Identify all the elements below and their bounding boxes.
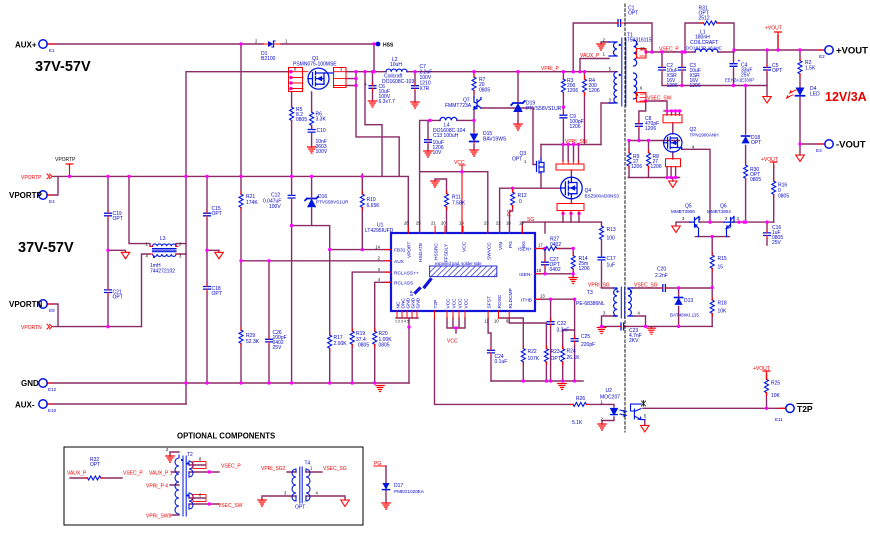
svg-text:FB31: FB31 xyxy=(394,248,406,254)
wire R17 column xyxy=(329,250,331,383)
ground D15 xyxy=(470,150,478,156)
svg-text:25V: 25V xyxy=(273,345,283,351)
svg-text:VCC: VCC xyxy=(454,160,465,166)
wire SFST/C24 xyxy=(488,318,491,381)
wire R19 R20 bottoms xyxy=(352,345,375,384)
svg-text:HSGATE: HSGATE xyxy=(418,243,424,262)
resistor R22 xyxy=(521,346,525,365)
svg-text:0805: 0805 xyxy=(379,343,390,349)
wire C7 column xyxy=(414,72,416,102)
svg-text:1: 1 xyxy=(310,466,313,471)
svg-text:1206: 1206 xyxy=(570,124,581,130)
svg-text:E4: E4 xyxy=(49,199,55,204)
svg-text:1206: 1206 xyxy=(667,83,678,89)
terminal stub E1 xyxy=(48,44,825,408)
wire rail2 xyxy=(491,380,583,382)
svg-text:3: 3 xyxy=(378,267,381,272)
wire Q3 drain/source xyxy=(500,145,541,234)
svg-text:BAV19WS: BAV19WS xyxy=(483,137,507,143)
terminal E1 xyxy=(39,40,47,48)
wire VPRI_SW bus xyxy=(541,144,601,146)
svg-text:10K: 10K xyxy=(771,393,781,399)
transistor Q2 pin boxes xyxy=(663,115,682,123)
svg-text:0: 0 xyxy=(519,199,522,205)
svg-text:EEHZA1E330P: EEHZA1E330P xyxy=(725,78,754,83)
svg-text:RCLASS: RCLASS xyxy=(394,281,413,287)
zener D19 xyxy=(511,101,525,112)
svg-text:PE-68386NL: PE-68386NL xyxy=(576,301,605,307)
svg-text:3: 3 xyxy=(603,311,606,316)
wire ISEN- xyxy=(535,274,573,278)
svg-text:+VOUT: +VOUT xyxy=(836,46,868,57)
wire RCLASS++ xyxy=(352,272,391,331)
resistor R9 xyxy=(627,150,631,169)
svg-text:37V-57V: 37V-57V xyxy=(35,59,91,75)
svg-text:6.65K: 6.65K xyxy=(367,203,381,209)
svg-text:2: 2 xyxy=(166,447,169,452)
svg-text:LED: LED xyxy=(810,92,820,98)
svg-text:17: 17 xyxy=(538,243,543,248)
svg-text:L3: L3 xyxy=(160,236,166,242)
svg-text:C25: C25 xyxy=(581,334,590,340)
svg-text:FFSDLY: FFSDLY xyxy=(444,243,450,262)
svg-text:VSEC_P: VSEC_P xyxy=(123,471,143,477)
node R25 xyxy=(765,407,768,410)
svg-text:OPT: OPT xyxy=(295,505,305,511)
svg-text:VCC: VCC xyxy=(462,241,468,252)
diode D1 xyxy=(268,41,274,47)
svg-text:26.1K: 26.1K xyxy=(567,355,581,361)
resistor R7 xyxy=(472,74,476,93)
wire R10 column xyxy=(361,174,363,250)
svg-text:PG: PG xyxy=(374,461,381,467)
node L3 pin3 xyxy=(106,249,109,252)
svg-text:R13: R13 xyxy=(607,227,616,233)
capacitor C17 xyxy=(598,255,605,263)
capacitor C8 xyxy=(636,121,643,129)
svg-text:VSEC_P: VSEC_P xyxy=(221,464,241,470)
node sec gnd bus xyxy=(680,84,683,87)
wire R22 column xyxy=(499,318,524,381)
svg-text:12V/3A: 12V/3A xyxy=(825,90,867,104)
ground T4 pin4 (open) xyxy=(341,500,349,507)
svg-text:14: 14 xyxy=(375,245,380,250)
capacitor C12 xyxy=(288,193,295,201)
wire T1 pin3 return xyxy=(601,103,613,145)
wire C26 column xyxy=(268,261,270,383)
capacitor C21 xyxy=(105,287,112,295)
ground opto LED xyxy=(598,424,606,430)
diode D15 xyxy=(470,134,479,142)
wire T1 pin2 gnd xyxy=(601,42,609,44)
wire R3/C9 column xyxy=(562,72,564,145)
svg-text:R15: R15 xyxy=(718,256,727,262)
ground D17 xyxy=(382,503,390,509)
svg-text:+: + xyxy=(364,82,367,88)
svg-text:VPRI_SW8: VPRI_SW8 xyxy=(146,514,172,520)
resistor R27 xyxy=(541,247,560,251)
svg-text:2: 2 xyxy=(378,256,381,261)
svg-text:SWVCC: SWVCC xyxy=(486,242,492,260)
optocoupler U2 xyxy=(611,404,645,420)
resistor R5 xyxy=(290,104,294,123)
T1 secondary top winding xyxy=(634,40,637,66)
svg-text:174K: 174K xyxy=(246,200,258,206)
svg-text:4: 4 xyxy=(638,311,641,316)
wire C1 loop xyxy=(573,23,652,72)
svg-text:ROSC: ROSC xyxy=(497,294,503,308)
wire C6 column xyxy=(372,72,374,101)
node rail2 xyxy=(522,379,525,382)
svg-text:1206: 1206 xyxy=(690,83,701,89)
power flag VCC mid xyxy=(459,165,465,233)
transistor Q1 pin boxes xyxy=(289,68,303,92)
node ISEN xyxy=(572,247,575,250)
wire L4 / VCC line xyxy=(420,120,488,233)
optional components border xyxy=(64,447,363,525)
svg-text:1.5K: 1.5K xyxy=(805,66,816,72)
node AUX+ junctions xyxy=(239,42,242,45)
svg-text:D13: D13 xyxy=(684,298,693,304)
node ITHB xyxy=(549,298,552,301)
wire HSS drop xyxy=(373,44,375,72)
svg-text:B2100: B2100 xyxy=(261,56,276,62)
svg-text:EP: EP xyxy=(409,290,414,296)
ground ISEN- xyxy=(569,278,577,284)
svg-text:HSS: HSS xyxy=(383,43,394,49)
terminal E3 xyxy=(825,140,833,148)
wire C23/rail3 xyxy=(602,316,713,328)
svg-text:100V: 100V xyxy=(316,149,328,155)
wire SG bus xyxy=(522,222,601,233)
T1 polarity dots xyxy=(619,44,621,46)
T1 secondary pin clusters xyxy=(637,49,647,59)
capacitor C24 xyxy=(488,348,495,356)
svg-text:E12: E12 xyxy=(48,387,57,392)
inductor L2 xyxy=(386,69,407,72)
svg-text:R23: R23 xyxy=(551,349,560,355)
wire VPORTN entry xyxy=(47,304,142,327)
ground C10 xyxy=(307,147,315,153)
node VPORTN rail xyxy=(106,325,109,328)
svg-text:PSMN075-100MSE: PSMN075-100MSE xyxy=(293,62,337,68)
svg-text:0805: 0805 xyxy=(296,117,307,123)
wire Q5/Q6 collectors and bases xyxy=(676,222,774,237)
resistor R29 xyxy=(239,327,243,346)
svg-text:3.3K: 3.3K xyxy=(316,117,327,123)
svg-text:HSSRC: HSSRC xyxy=(434,243,440,260)
wire R23 column xyxy=(509,318,546,381)
ground L3 right (open) xyxy=(215,252,223,258)
extra wires xyxy=(541,188,560,233)
svg-text:10: 10 xyxy=(640,46,645,51)
wire R12 xyxy=(510,188,513,233)
wire R32 row xyxy=(70,477,122,479)
svg-text:0402: 0402 xyxy=(550,242,561,248)
node Q4 source xyxy=(561,212,564,215)
wire R4 column xyxy=(584,72,586,145)
svg-text:OPT: OPT xyxy=(113,216,123,222)
svg-text:PTVS58VS1UR: PTVS58VS1UR xyxy=(316,200,349,205)
IC U1 exposed pad xyxy=(430,266,497,277)
svg-text:VCC: VCC xyxy=(447,339,458,345)
svg-text:3: 3 xyxy=(682,216,685,221)
wire Q2 source cluster xyxy=(667,152,676,181)
capacitor C6 xyxy=(369,83,376,91)
svg-text:E10: E10 xyxy=(48,408,57,413)
wire R16 column xyxy=(773,166,775,222)
resistor R18 xyxy=(710,297,714,316)
svg-text:0805: 0805 xyxy=(778,194,789,200)
svg-text:X7R: X7R xyxy=(420,86,430,92)
svg-text:FMMT723A: FMMT723A xyxy=(445,103,472,109)
power flag +VOUT R25 xyxy=(763,371,770,376)
svg-text:VCC: VCC xyxy=(452,298,458,309)
capacitor C15 xyxy=(204,211,211,219)
wire AUX+ rail xyxy=(47,43,377,45)
wire Q7 collector to Q3 gate xyxy=(481,108,536,165)
resistor R12 xyxy=(511,189,515,208)
ground R11 xyxy=(431,181,439,187)
wire R9 R8 bus xyxy=(628,141,679,178)
PG underline D17 xyxy=(374,465,385,467)
wire R31 parallel loop xyxy=(685,23,734,52)
resistor R13 xyxy=(600,223,604,242)
svg-text:exposed pad, solder side: exposed pad, solder side xyxy=(435,261,482,266)
svg-text:C13 100uH: C13 100uH xyxy=(433,133,459,139)
svg-text:VIN: VIN xyxy=(498,241,504,250)
T1 core xyxy=(622,38,626,106)
resistor R17 xyxy=(328,332,332,351)
svg-text:3: 3 xyxy=(609,98,612,103)
wire C27 column xyxy=(544,249,546,274)
svg-text:T3: T3 xyxy=(587,290,593,296)
capacitor C9 xyxy=(560,113,567,121)
resistor R8 xyxy=(647,150,651,169)
wire AUX- / Q1 gate column xyxy=(186,72,290,404)
ground Q5 collector (open) xyxy=(672,226,680,233)
wire Q2 cluster stubs xyxy=(667,111,680,134)
svg-text:VPORTP: VPORTP xyxy=(55,157,76,163)
wire ISEN+ / R27 / R14 xyxy=(535,249,573,274)
svg-text:220pF: 220pF xyxy=(581,342,595,348)
wire Q4 connections xyxy=(563,145,579,223)
svg-text:7.58K: 7.58K xyxy=(452,201,466,207)
svg-text:20: 20 xyxy=(441,221,446,226)
wire VAUX_P tap xyxy=(580,59,609,72)
svg-text:1: 1 xyxy=(603,52,606,57)
terminal E12 xyxy=(39,379,47,387)
resistor R16 xyxy=(772,178,776,197)
wire R11 xyxy=(435,179,447,233)
wire T2P column xyxy=(435,318,574,404)
svg-text:OPT: OPT xyxy=(751,140,761,146)
svg-text:3: 3 xyxy=(284,491,287,496)
ground C13 xyxy=(424,151,432,157)
node AUX rail xyxy=(239,259,242,262)
svg-text:2: 2 xyxy=(699,216,702,221)
resistor R15 xyxy=(710,252,714,271)
svg-text:E11: E11 xyxy=(775,417,783,422)
IC U1 body xyxy=(391,233,535,311)
svg-text:LT4295IUFD: LT4295IUFD xyxy=(365,228,394,234)
svg-text:OPT: OPT xyxy=(512,157,522,163)
svg-text:100: 100 xyxy=(607,236,616,242)
node Q1 right pins xyxy=(354,70,357,73)
svg-text:6: 6 xyxy=(640,86,643,91)
ground C7 xyxy=(411,102,419,108)
svg-text:R26: R26 xyxy=(576,396,585,402)
wire Q2 pin4 to bases xyxy=(682,149,710,222)
svg-text:PMEG1020EA: PMEG1020EA xyxy=(394,489,425,494)
transistor Q2 xyxy=(664,134,683,152)
resistor R23 xyxy=(544,346,548,365)
svg-text:6.3x7.7: 6.3x7.7 xyxy=(379,99,396,105)
svg-text:C22: C22 xyxy=(557,321,566,327)
svg-text:1206: 1206 xyxy=(579,266,590,272)
svg-text:5.1K: 5.1K xyxy=(572,420,583,426)
resistor R10 xyxy=(360,191,364,210)
capacitor C22 xyxy=(547,319,554,327)
svg-text:VPRI_SG2: VPRI_SG2 xyxy=(261,466,286,472)
wire R7/Q7 column xyxy=(473,72,475,150)
resistor R32 xyxy=(85,476,104,480)
diode D13 xyxy=(675,298,683,305)
svg-text:VSEC_SG: VSEC_SG xyxy=(323,466,347,472)
terminal E4 xyxy=(39,191,47,199)
ground rail2 xyxy=(558,384,566,390)
svg-text:19: 19 xyxy=(459,221,464,226)
wire VSEC_SW net xyxy=(639,101,681,141)
svg-text:2.2nF: 2.2nF xyxy=(655,273,668,279)
resistor R14 xyxy=(571,253,575,272)
ground GND rail xyxy=(376,386,384,392)
svg-text:ITHB: ITHB xyxy=(521,298,532,304)
svg-text:-VOUT: -VOUT xyxy=(836,140,866,151)
ground L3 left (open) xyxy=(121,252,129,258)
resistor R20 xyxy=(373,328,377,347)
resistor R2 xyxy=(798,58,802,77)
svg-text:VPORT: VPORT xyxy=(407,241,413,258)
svg-text:T2P: T2P xyxy=(797,404,813,414)
wire VPORT rail extension xyxy=(241,176,408,233)
svg-text:VSEC_P: VSEC_P xyxy=(659,47,679,53)
wire D18/R30 column xyxy=(745,86,747,223)
ground T2 top xyxy=(166,456,174,462)
wire R24 column xyxy=(563,330,575,381)
wire T3 pin3 xyxy=(602,316,618,328)
node Q5/Q6 xyxy=(708,220,711,223)
svg-text:2: 2 xyxy=(725,216,728,221)
inductor L1 xyxy=(695,49,718,52)
resistor R31 xyxy=(701,21,720,25)
svg-text:25: 25 xyxy=(416,221,421,226)
node VPRI_SW bus xyxy=(561,143,564,146)
svg-text:E3: E3 xyxy=(816,148,822,153)
svg-text:10V: 10V xyxy=(433,150,443,156)
svg-text:R25: R25 xyxy=(771,381,780,387)
svg-text:OPT: OPT xyxy=(772,68,782,74)
node L4 xyxy=(428,119,431,122)
transistor Q6 (npn) xyxy=(724,217,734,237)
svg-text:11: 11 xyxy=(485,319,490,324)
resistor R3 xyxy=(561,76,565,95)
resistor R25 xyxy=(765,377,769,396)
svg-text:VAUX_P 1: VAUX_P 1 xyxy=(149,471,173,477)
svg-text:AUX+: AUX+ xyxy=(15,41,37,50)
svg-text:PG: PG xyxy=(508,241,514,248)
svg-text:GND: GND xyxy=(21,379,39,388)
ground C6 xyxy=(368,101,376,107)
svg-text:VPORTN: VPORTN xyxy=(9,300,43,309)
capacitor C16 xyxy=(764,230,771,238)
capacitor C2 xyxy=(659,65,666,73)
svg-text:+VOUT: +VOUT xyxy=(765,26,782,32)
power flag +VOUT rail xyxy=(775,32,782,37)
svg-text:MOC207: MOC207 xyxy=(600,395,620,401)
svg-text:OPT: OPT xyxy=(212,211,222,217)
svg-text:744272102: 744272102 xyxy=(150,269,175,275)
wire IC vcc pins xyxy=(447,318,465,333)
resistor R26 xyxy=(570,402,589,406)
svg-text:10: 10 xyxy=(494,319,499,324)
wire R5/C12 column xyxy=(291,92,293,383)
wire AUX rail xyxy=(241,260,391,262)
transformer T4 (optional) xyxy=(292,467,310,503)
svg-text:2.00K: 2.00K xyxy=(334,341,348,347)
wire D13 line xyxy=(633,287,713,289)
svg-text:0.1uF: 0.1uF xyxy=(495,359,508,365)
svg-text:1206: 1206 xyxy=(651,164,662,170)
inductor L4 xyxy=(440,117,457,120)
chevron VPORTP xyxy=(47,174,52,179)
terminal E9 xyxy=(39,300,47,308)
svg-text:PG: PG xyxy=(507,209,513,216)
wire C15/C18 column xyxy=(206,176,208,383)
svg-text:VCC: VCC xyxy=(446,298,452,309)
resistor R4 xyxy=(583,76,587,95)
terminal E2 xyxy=(825,46,833,54)
capacitor C19 xyxy=(105,211,112,219)
resistor R24 xyxy=(561,346,565,365)
svg-text:VPRI_P: VPRI_P xyxy=(541,66,559,72)
wire R6/C10/D16 column xyxy=(292,92,330,250)
wire R15 column xyxy=(711,237,713,288)
capacitor C18 xyxy=(204,284,211,292)
resistor R11 xyxy=(445,191,449,210)
transformer T2 (optional) xyxy=(175,455,193,516)
svg-text:DO1813P-161HC: DO1813P-161HC xyxy=(686,46,723,51)
wire T4 pins xyxy=(262,472,345,500)
svg-text:4: 4 xyxy=(378,277,381,282)
T1 primary aux winding xyxy=(614,42,618,56)
svg-text:1 2 3 4 5: 1 2 3 4 5 xyxy=(395,320,409,324)
svg-text:4: 4 xyxy=(316,491,319,496)
transistor Q4 pin boxes xyxy=(556,164,584,170)
svg-text:VPORTN: VPORTN xyxy=(21,325,42,331)
svg-text:37V-57V: 37V-57V xyxy=(18,240,74,256)
svg-text:1: 1 xyxy=(285,39,288,44)
svg-text:AUX: AUX xyxy=(394,259,405,265)
wire C16 column xyxy=(766,222,768,245)
svg-text:TPN1900ANH: TPN1900ANH xyxy=(690,133,719,138)
svg-text:VAUX_P: VAUX_P xyxy=(67,471,87,477)
wire R26 xyxy=(587,403,610,405)
node C9 top xyxy=(562,105,565,108)
svg-text:5: 5 xyxy=(609,67,612,72)
svg-text:VSEC_SW: VSEC_SW xyxy=(647,95,672,101)
node IC pins bus xyxy=(454,326,457,329)
